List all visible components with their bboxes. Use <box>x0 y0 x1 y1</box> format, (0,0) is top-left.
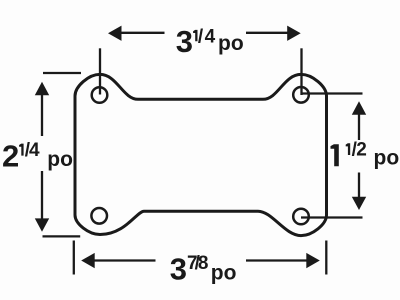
svg-text:po: po <box>374 147 400 170</box>
left dimension bottom extension tick <box>43 235 81 237</box>
extension line below plate left edge <box>73 241 75 275</box>
hole top-left <box>92 87 108 103</box>
svg-text:2: 2 <box>2 138 19 173</box>
top dimension left arrow <box>121 32 165 34</box>
right dimension up arrow <box>352 101 366 114</box>
svg-text:3: 3 <box>176 24 193 59</box>
extension line below plate right edge <box>325 241 327 275</box>
bottom dimension left arrow <box>94 259 156 261</box>
svg-text:2: 2 <box>356 139 367 160</box>
svg-text:8: 8 <box>198 253 209 274</box>
svg-text:4: 4 <box>205 26 216 47</box>
hole bottom-left <box>91 208 107 224</box>
extension line from top-right hole up <box>300 48 302 95</box>
svg-text:3: 3 <box>170 251 187 286</box>
extension line from top-right hole to the right <box>301 92 363 94</box>
extension line from bottom-right hole to the right <box>301 216 363 218</box>
svg-text:po: po <box>47 148 73 171</box>
mounting plate outline <box>75 74 327 235</box>
right dimension down arrow <box>358 173 360 198</box>
right dimension text 1 1/2 po <box>331 144 339 166</box>
svg-text:4: 4 <box>29 140 40 161</box>
svg-text:po: po <box>218 32 244 55</box>
hole bottom-right <box>293 209 309 225</box>
svg-text:/: / <box>198 26 204 47</box>
extension line from top-left hole up <box>99 48 101 94</box>
bottom dimension right arrow <box>246 259 307 261</box>
left dimension down arrow <box>41 171 43 219</box>
svg-text:po: po <box>211 261 237 284</box>
top dimension right arrow <box>246 32 288 34</box>
hole top-right <box>293 87 309 103</box>
left dimension top extension tick <box>43 72 81 74</box>
left dimension up arrow <box>35 82 49 95</box>
